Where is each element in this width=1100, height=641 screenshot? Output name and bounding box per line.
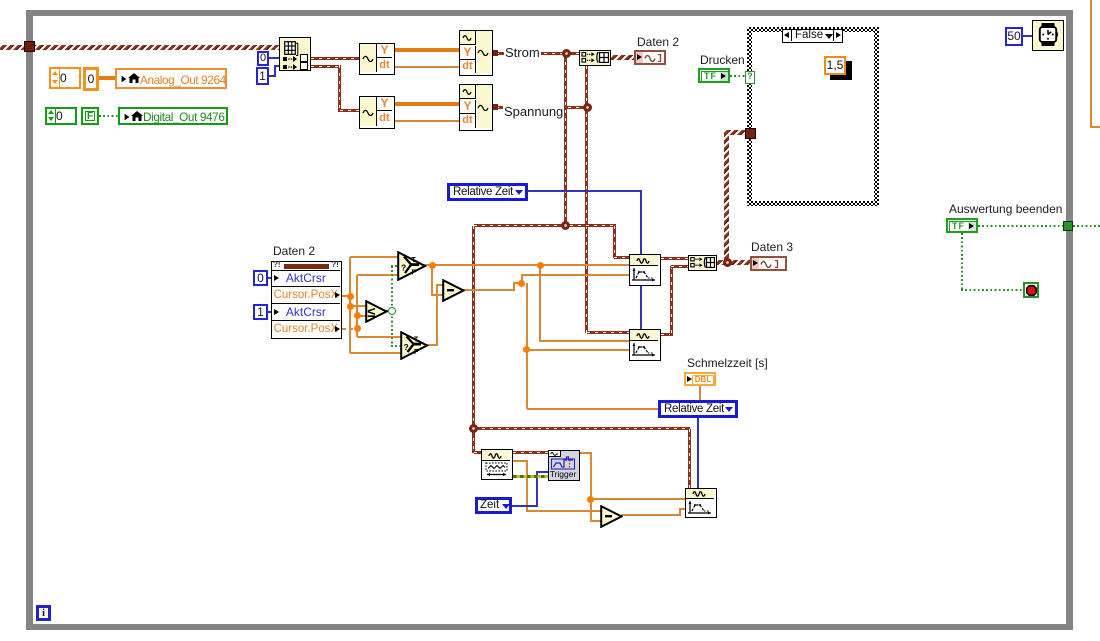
svg-text:T: T [414,337,419,344]
svg-text:F: F [412,270,417,277]
svg-text:T: T [412,257,417,264]
svg-text:?: ? [404,342,409,352]
svg-text:F: F [414,349,419,356]
svg-text:?: ? [401,263,406,273]
svg-text:≤: ≤ [368,305,376,321]
